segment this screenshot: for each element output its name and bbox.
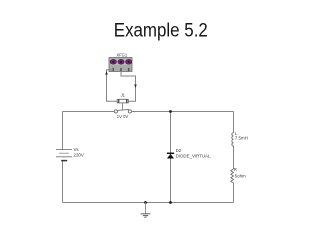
- svg-text:Vs: Vs: [74, 147, 80, 152]
- wire top left: [63, 111, 115, 113]
- wire left upper: [62, 112, 64, 150]
- wire left lower: [62, 161, 64, 203]
- node top of diode branch: [169, 110, 172, 113]
- wire XFG1 left pin to relay coil: [107, 70, 118, 101]
- svg-text:D2: D2: [176, 148, 182, 153]
- svg-text:J1: J1: [121, 92, 126, 97]
- arrowhead up on left control wire: [105, 71, 108, 74]
- diode D2: [167, 153, 174, 158]
- node bottom of diode branch: [169, 201, 172, 204]
- svg-text:5ohm: 5ohm: [235, 173, 246, 178]
- wire right upper: [233, 112, 235, 133]
- wire bottom: [63, 202, 234, 204]
- resistor R: [231, 169, 234, 183]
- wire right lower: [233, 183, 235, 203]
- wire XFG1 middle pin to relay coil: [121, 71, 136, 101]
- svg-text:7.5mH: 7.5mH: [235, 136, 248, 141]
- svg-text:220V: 220V: [74, 152, 84, 157]
- wire top right: [132, 111, 234, 113]
- node ground junction: [144, 201, 147, 204]
- svg-text:R: R: [234, 167, 237, 172]
- arrowhead down on right control wire: [134, 85, 137, 88]
- wire right middle: [233, 146, 235, 169]
- wire coil to switch blade: [122, 103, 124, 110]
- svg-text:DIODE_VIRTUAL: DIODE_VIRTUAL: [176, 154, 211, 159]
- ground: [141, 203, 151, 218]
- switch J1 contacts: [114, 110, 131, 114]
- svg-text:XFG1: XFG1: [116, 53, 128, 58]
- function generator XFG1: [109, 58, 132, 72]
- inductor L: [232, 133, 234, 147]
- wire diode branch: [170, 112, 172, 203]
- relay coil J1: [117, 99, 128, 103]
- svg-text:1V 0V: 1V 0V: [117, 114, 129, 119]
- svg-text:Example 5.2: Example 5.2: [114, 19, 208, 41]
- battery Vs: [56, 150, 72, 161]
